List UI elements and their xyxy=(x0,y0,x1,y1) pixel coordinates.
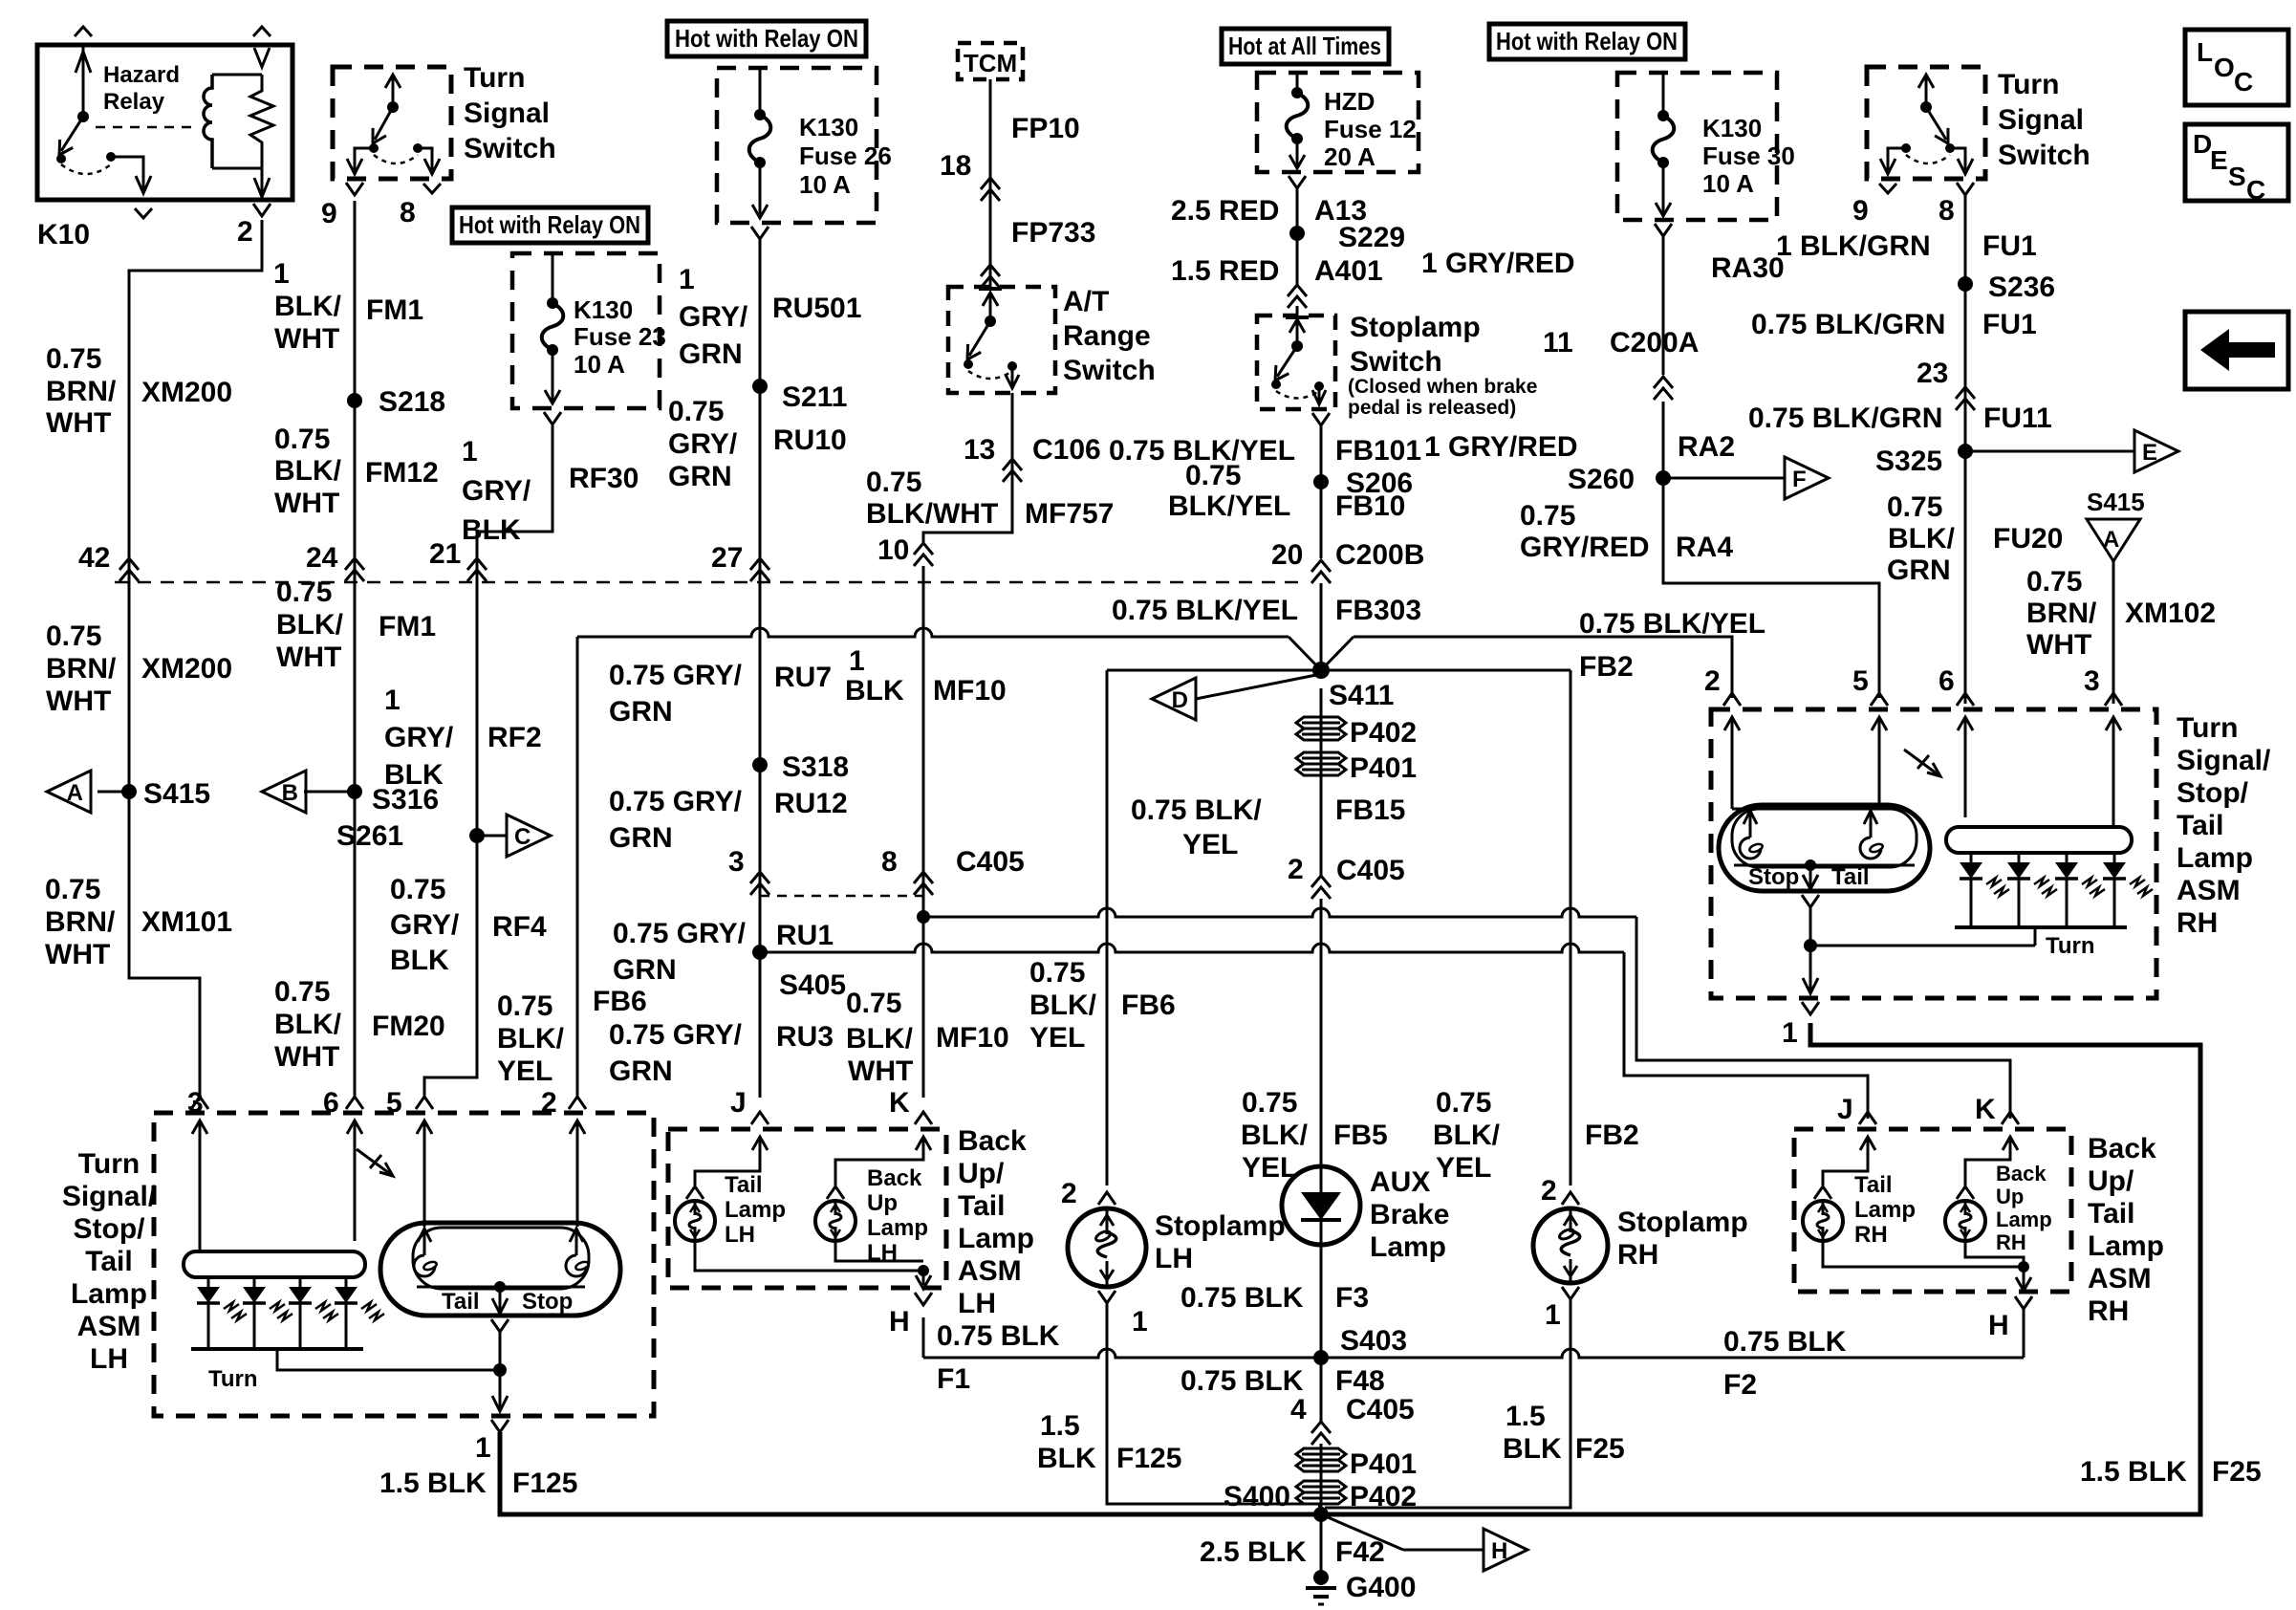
legend LOC box xyxy=(2185,30,2288,105)
lamp-out detector RH xyxy=(1904,750,1940,776)
wire to triangle A xyxy=(97,791,129,794)
svg-text:3: 3 xyxy=(728,846,745,878)
lamp AUX Brake diode xyxy=(1282,1166,1360,1245)
svg-text:F3: F3 xyxy=(1335,1282,1369,1314)
svg-text:0.75 BLK: 0.75 BLK xyxy=(1180,1282,1304,1314)
svg-text:Signal/: Signal/ xyxy=(2177,745,2271,776)
connector 23 chevrons xyxy=(1956,387,1975,410)
svg-text:H: H xyxy=(1491,1538,1507,1564)
svg-text:0.75: 0.75 xyxy=(46,343,101,375)
svg-text:Signal: Signal xyxy=(1998,104,2084,136)
splice S229 xyxy=(1289,226,1305,241)
connector triangle E xyxy=(2134,430,2178,472)
assembly Turn Signal/Stop/Tail Lamp ASM LH box xyxy=(154,1113,654,1416)
connector triangle F xyxy=(1785,457,1829,499)
lamp Tail Lamp LH xyxy=(675,1201,715,1241)
svg-text:23: 23 xyxy=(1917,358,1948,389)
svg-text:10 A: 10 A xyxy=(574,350,625,379)
wire backup lamp RH feed xyxy=(1965,1153,2010,1186)
svg-text:RA2: RA2 xyxy=(1678,431,1735,463)
svg-text:WHT: WHT xyxy=(46,407,111,439)
svg-text:10: 10 xyxy=(877,534,909,566)
svg-text:10 A: 10 A xyxy=(799,170,851,199)
TS-RH contact a xyxy=(1901,143,1911,153)
arrowhead down pin2 bottom xyxy=(254,178,270,197)
svg-text:Stop/: Stop/ xyxy=(2177,777,2249,809)
wire RH tail feed xyxy=(1878,765,1881,809)
arrowhead down pin2 top xyxy=(254,48,270,67)
TS-RH arm xyxy=(1926,107,1946,140)
svg-text:RU501: RU501 xyxy=(772,293,861,324)
fusebox HZD Fuse 12 xyxy=(1257,73,1419,172)
svg-text:FM1: FM1 xyxy=(366,294,423,326)
bulb inner filament bar RH xyxy=(1734,864,1915,867)
wire RH stop feed xyxy=(1731,765,1734,809)
connector 11 C200A chevrons xyxy=(1654,377,1673,400)
assembly Back Up/Tail Lamp ASM RH box xyxy=(1794,1129,2071,1292)
wire LH ASM exit xyxy=(492,1370,508,1411)
svg-text:8: 8 xyxy=(881,846,898,878)
svg-text:Lamp: Lamp xyxy=(1854,1197,1916,1223)
svg-text:ASM: ASM xyxy=(958,1255,1022,1287)
svg-text:BLK/: BLK/ xyxy=(497,1023,565,1055)
relay contact a xyxy=(56,154,66,163)
connector triangle B xyxy=(262,771,306,813)
svg-text:A: A xyxy=(2103,527,2119,553)
svg-text:P402: P402 xyxy=(1350,1481,1417,1512)
svg-text:20 A: 20 A xyxy=(1324,142,1375,171)
svg-text:FM20: FM20 xyxy=(372,1011,445,1042)
connector C405 RU chevrons xyxy=(750,872,769,895)
port fork LH ASM bottom xyxy=(491,1420,509,1432)
svg-text:18: 18 xyxy=(940,150,971,182)
connector triangle C xyxy=(507,815,551,857)
svg-text:Relay: Relay xyxy=(103,89,165,115)
svg-text:YEL: YEL xyxy=(1242,1152,1297,1184)
svg-text:0.75: 0.75 xyxy=(1029,957,1085,989)
svg-text:Turn: Turn xyxy=(208,1366,258,1392)
wire A13 xyxy=(1296,188,1299,285)
wire FB101/FB10 xyxy=(1320,425,1323,558)
port fork under fuse30 xyxy=(1655,224,1672,236)
svg-text:RU1: RU1 xyxy=(776,920,834,951)
svg-text:RH: RH xyxy=(2177,907,2218,939)
connector S415 triangle xyxy=(2087,519,2140,561)
svg-text:FB2: FB2 xyxy=(1585,1120,1639,1151)
svg-text:XM102: XM102 xyxy=(2125,598,2216,629)
svg-text:GRN: GRN xyxy=(609,822,673,854)
connector triangle A xyxy=(47,771,91,813)
svg-text:Tail: Tail xyxy=(442,1289,480,1315)
svg-text:Fuse 26: Fuse 26 xyxy=(799,141,892,170)
stoplamp-sw arm xyxy=(1277,346,1297,377)
svg-text:0.75 BLK: 0.75 BLK xyxy=(1180,1365,1304,1397)
svg-text:2: 2 xyxy=(1541,1175,1557,1207)
arrowhead up on K10 feed xyxy=(76,52,91,73)
LED 1 LH xyxy=(207,1277,210,1287)
splice S211 xyxy=(752,379,768,394)
stoplamp-sw throw arc xyxy=(1276,391,1319,399)
svg-text:Hot at All Times: Hot at All Times xyxy=(1228,32,1381,60)
wire FM1 xyxy=(354,201,357,1098)
RH backup internal arrows xyxy=(1867,1137,1870,1153)
wire F42 to ground xyxy=(1320,1514,1323,1572)
bulb common arrow LH xyxy=(492,1287,508,1314)
svg-text:MF757: MF757 xyxy=(1025,498,1114,530)
svg-text:1 BLK/GRN: 1 BLK/GRN xyxy=(1776,230,1931,262)
svg-text:Switch: Switch xyxy=(1063,355,1156,386)
TS-RH contact b lead xyxy=(1950,148,1965,170)
port fork tail lamp LH xyxy=(686,1186,704,1199)
svg-text:8: 8 xyxy=(400,197,416,228)
svg-text:Lamp: Lamp xyxy=(1996,1207,2052,1231)
terminal v port 8 xyxy=(423,184,441,193)
TS-RH contact a lead xyxy=(1888,148,1906,170)
splice S325 xyxy=(1958,444,1973,459)
wire fuse26 top xyxy=(759,68,762,115)
lamp Back Up Lamp LH xyxy=(815,1201,856,1241)
svg-text:BRN/: BRN/ xyxy=(45,906,116,938)
svg-text:0.75: 0.75 xyxy=(274,976,330,1008)
svg-text:1: 1 xyxy=(1782,1017,1798,1049)
svg-text:(Closed when brake: (Closed when brake xyxy=(1348,376,1537,398)
wire to triangle B xyxy=(304,791,355,794)
svg-text:GRY/: GRY/ xyxy=(390,909,460,941)
RH ASM internal arrows xyxy=(1731,717,1734,765)
port fork stoplamp RH top xyxy=(1562,1192,1579,1205)
fusebox K130 Fuse 30 xyxy=(1617,73,1777,220)
wire F125 from stoplamp LH xyxy=(1107,1303,1321,1512)
svg-text:0.75: 0.75 xyxy=(390,874,445,905)
svg-text:FB10: FB10 xyxy=(1335,490,1405,522)
svg-text:BLK: BLK xyxy=(462,514,521,546)
svg-text:42: 42 xyxy=(78,542,110,574)
wire FB2 drop to stoplamp RH xyxy=(1570,670,1572,1186)
svg-text:GRY/: GRY/ xyxy=(384,722,454,753)
svg-text:BLK/: BLK/ xyxy=(274,455,342,487)
svg-text:Tail: Tail xyxy=(958,1190,1005,1222)
svg-text:1 GRY/RED: 1 GRY/RED xyxy=(1421,248,1575,279)
AT feed arrow xyxy=(989,293,992,321)
relay contact b lead xyxy=(111,157,143,189)
svg-text:1.5: 1.5 xyxy=(1040,1410,1080,1442)
svg-text:Turn: Turn xyxy=(464,62,525,94)
svg-text:Lamp: Lamp xyxy=(71,1278,147,1310)
bulb Stop/Tail LH xyxy=(380,1223,620,1316)
AT arm xyxy=(969,321,990,356)
connector 10 chevrons xyxy=(914,543,933,566)
svg-text:1: 1 xyxy=(679,264,695,295)
svg-text:WHT: WHT xyxy=(274,1041,339,1073)
svg-text:BLK/: BLK/ xyxy=(1029,990,1097,1021)
splice S261 xyxy=(469,828,485,843)
svg-text:0.75: 0.75 xyxy=(846,988,901,1019)
svg-text:0.75 BLK/GRN: 0.75 BLK/GRN xyxy=(1751,309,1945,340)
svg-text:J: J xyxy=(1837,1094,1853,1125)
wire MF10 xyxy=(922,566,925,1098)
svg-text:C106: C106 xyxy=(1032,434,1101,466)
label box Hot with Relay ON 3 xyxy=(1489,24,1685,59)
wire fuse23 top xyxy=(552,253,554,303)
ground bus F1 F2 xyxy=(923,1349,2024,1358)
svg-text:BRN/: BRN/ xyxy=(46,653,117,685)
svg-text:F125: F125 xyxy=(1116,1443,1181,1474)
svg-text:0.75 BLK/YEL: 0.75 BLK/YEL xyxy=(1112,595,1298,626)
svg-text:F125: F125 xyxy=(512,1468,577,1499)
svg-text:K130: K130 xyxy=(1702,114,1762,142)
svg-text:6: 6 xyxy=(1939,665,1955,697)
svg-text:GRN: GRN xyxy=(609,696,673,728)
svg-text:Switch: Switch xyxy=(1998,140,2090,171)
svg-text:P401: P401 xyxy=(1350,1448,1417,1480)
port fork stoplamp LH bottom xyxy=(1098,1291,1116,1303)
LH ASM internal arrows xyxy=(199,1120,202,1171)
svg-text:GRN: GRN xyxy=(609,1055,673,1087)
svg-text:FB303: FB303 xyxy=(1335,595,1421,626)
bulb terminal LH right xyxy=(570,1229,583,1242)
wire RA2 xyxy=(1662,402,1665,478)
svg-text:Stop/: Stop/ xyxy=(74,1213,146,1245)
svg-text:Stop: Stop xyxy=(1748,864,1799,890)
svg-text:F: F xyxy=(1792,467,1807,492)
TS-LH contact b xyxy=(413,143,422,153)
svg-text:0.75: 0.75 xyxy=(668,396,724,427)
relay switch arm xyxy=(61,117,83,151)
label box Hot at All Times xyxy=(1222,29,1389,64)
svg-text:F25: F25 xyxy=(1575,1433,1625,1465)
port fork under fuse23 xyxy=(544,412,561,424)
svg-text:BLK/: BLK/ xyxy=(1241,1120,1309,1151)
LED 3 LH xyxy=(299,1277,302,1287)
TS-LH throw arc xyxy=(374,155,418,163)
svg-text:Fuse 23: Fuse 23 xyxy=(574,322,666,351)
svg-text:YEL: YEL xyxy=(1029,1022,1085,1054)
splice S236 xyxy=(1958,276,1973,292)
svg-text:TCM: TCM xyxy=(964,49,1017,77)
svg-text:0.75: 0.75 xyxy=(1185,460,1241,491)
port fork backup lamp LH xyxy=(827,1186,844,1199)
wire RH fu20 stub xyxy=(1964,765,1967,817)
svg-text:Tail: Tail xyxy=(1854,1172,1893,1198)
svg-text:K130: K130 xyxy=(799,113,858,141)
svg-text:HZD: HZD xyxy=(1324,87,1375,116)
splice S260 xyxy=(1656,470,1671,486)
svg-text:Lamp: Lamp xyxy=(867,1215,928,1241)
svg-text:0.75 BLK: 0.75 BLK xyxy=(1723,1326,1847,1358)
wire lamps to H port RH xyxy=(1823,1241,2024,1267)
terminal v port 9 RH xyxy=(1879,184,1896,193)
svg-text:RA4: RA4 xyxy=(1676,532,1733,563)
svg-text:FB6: FB6 xyxy=(1121,990,1176,1021)
svg-text:9: 9 xyxy=(1852,195,1869,227)
svg-text:BLK: BLK xyxy=(390,945,449,976)
switch Turn Signal RH box xyxy=(1867,67,1985,179)
port 2 fork xyxy=(253,204,271,216)
wire LH tail feed xyxy=(423,1171,426,1227)
svg-text:Stoplamp: Stoplamp xyxy=(1350,312,1481,343)
LED 2 RH xyxy=(2018,853,2021,862)
svg-text:Lamp: Lamp xyxy=(2088,1230,2164,1262)
LED 4 RH xyxy=(2113,853,2116,862)
AT contact a xyxy=(964,359,973,369)
svg-text:A: A xyxy=(67,780,83,806)
svg-text:S: S xyxy=(2228,162,2246,191)
svg-text:5: 5 xyxy=(1852,665,1869,697)
svg-text:S405: S405 xyxy=(779,969,846,1001)
relay contact b xyxy=(106,152,116,162)
svg-text:RH: RH xyxy=(2088,1295,2129,1327)
svg-text:1: 1 xyxy=(462,436,478,468)
svg-text:2.5 BLK: 2.5 BLK xyxy=(1200,1536,1307,1568)
svg-text:0.75: 0.75 xyxy=(276,577,332,608)
svg-text:FB101: FB101 xyxy=(1335,435,1421,467)
svg-text:A401: A401 xyxy=(1314,255,1383,287)
port forks RH ASM top xyxy=(1723,693,1741,706)
svg-text:F48: F48 xyxy=(1335,1365,1385,1397)
svg-text:YEL: YEL xyxy=(497,1055,552,1087)
terminal ^ K10 pin top-left xyxy=(75,27,92,36)
svg-text:GRN: GRN xyxy=(613,954,677,986)
svg-text:BLK/: BLK/ xyxy=(1888,523,1956,555)
stoplamp-sw pivot xyxy=(1291,340,1303,352)
wire backup lamp LH feed xyxy=(835,1153,923,1186)
LED bar LH xyxy=(184,1251,365,1277)
connector 21 chevrons xyxy=(467,558,487,581)
wire FP10 xyxy=(989,79,992,287)
svg-text:S415: S415 xyxy=(143,778,210,810)
connector 27 chevrons xyxy=(750,558,769,581)
svg-text:FP10: FP10 xyxy=(1011,113,1080,144)
svg-text:O: O xyxy=(2214,53,2235,82)
wire RA4 xyxy=(1663,478,1879,698)
svg-text:FB2: FB2 xyxy=(1579,651,1634,683)
svg-text:BLK/: BLK/ xyxy=(846,1023,914,1055)
svg-text:27: 27 xyxy=(711,542,743,574)
svg-text:H: H xyxy=(1988,1310,2009,1341)
module TCM box xyxy=(958,43,1023,79)
wire RF30/RF2 xyxy=(424,425,552,1098)
bulb terminal LH left xyxy=(418,1229,431,1242)
wire to triangle D xyxy=(1196,674,1321,699)
svg-text:Hot with Relay ON: Hot with Relay ON xyxy=(459,210,640,239)
splice S411 xyxy=(1312,662,1330,679)
svg-text:F1: F1 xyxy=(937,1363,970,1395)
TS-RH throw arc xyxy=(1906,155,1950,163)
svg-text:XM200: XM200 xyxy=(141,377,232,408)
junction turn/common LH xyxy=(493,1363,507,1377)
bulb inner filament bar LH xyxy=(417,1286,585,1289)
switch A/T Range box xyxy=(948,287,1055,393)
wire XM102 xyxy=(2112,561,2115,704)
coil top rail xyxy=(212,74,262,76)
svg-text:Turn: Turn xyxy=(2177,712,2238,744)
wire FU1 xyxy=(1964,195,1967,704)
svg-text:BLK: BLK xyxy=(845,675,904,707)
bulb bottom fork RH xyxy=(1802,895,1819,907)
svg-text:FM12: FM12 xyxy=(365,457,439,489)
bus F125/F25 bottom xyxy=(500,1023,2200,1514)
svg-text:8: 8 xyxy=(1939,195,1955,227)
wire RA30 xyxy=(1662,236,1665,375)
TS-LH contact a xyxy=(369,143,379,153)
connector 4 C405 chevrons xyxy=(1311,1422,1331,1445)
splice S316 xyxy=(347,784,362,799)
svg-text:GRN: GRN xyxy=(679,338,743,370)
svg-text:K: K xyxy=(889,1087,910,1119)
fuse element F26 xyxy=(754,109,766,120)
svg-text:1.5: 1.5 xyxy=(1505,1401,1546,1432)
svg-text:P402: P402 xyxy=(1350,717,1417,749)
connector P401 lower xyxy=(1296,1448,1346,1471)
bulb common dot RH xyxy=(1805,859,1816,871)
legend arrow box xyxy=(2185,312,2288,389)
wire F25 from stoplamp RH xyxy=(1325,1299,1570,1508)
svg-text:BLK/WHT: BLK/WHT xyxy=(866,498,998,530)
svg-text:21: 21 xyxy=(429,538,461,570)
svg-text:Up: Up xyxy=(867,1190,898,1216)
LED rail LH xyxy=(191,1347,363,1351)
svg-text:Stop: Stop xyxy=(522,1289,573,1315)
TS-LH pivot xyxy=(387,101,399,113)
svg-text:F42: F42 xyxy=(1335,1536,1385,1568)
svg-text:BLK: BLK xyxy=(1503,1433,1562,1465)
fusebox K130 Fuse 23 xyxy=(512,253,660,408)
dashed mechanical link xyxy=(96,126,191,129)
connector 18 chevrons xyxy=(981,178,1000,201)
svg-text:1: 1 xyxy=(849,645,865,677)
wire to triangle C xyxy=(477,835,507,838)
svg-text:0.75: 0.75 xyxy=(2026,566,2082,598)
svg-text:B: B xyxy=(282,780,298,806)
svg-text:BLK/: BLK/ xyxy=(274,1009,342,1040)
harness separator dashed line xyxy=(115,581,1302,584)
svg-text:S415: S415 xyxy=(2087,488,2145,516)
LED 3 RH xyxy=(2066,853,2069,862)
svg-text:BLK/YEL: BLK/YEL xyxy=(1168,490,1290,522)
svg-text:RU10: RU10 xyxy=(773,424,847,456)
svg-text:WHT: WHT xyxy=(274,488,339,519)
svg-text:P401: P401 xyxy=(1350,752,1417,784)
svg-text:Stoplamp: Stoplamp xyxy=(1155,1210,1286,1242)
wire to P401 lower xyxy=(1320,1444,1323,1514)
svg-text:RF2: RF2 xyxy=(487,722,542,753)
AT contact b xyxy=(1007,361,1017,371)
port fork RH ASM bottom xyxy=(1802,1002,1819,1014)
splice S218 xyxy=(347,393,362,408)
svg-text:Tail: Tail xyxy=(85,1246,132,1277)
port fork under stoplamp switch xyxy=(1312,413,1330,425)
svg-text:C405: C405 xyxy=(1336,855,1405,886)
svg-text:0.75 GRY/: 0.75 GRY/ xyxy=(613,918,747,949)
svg-text:0.75: 0.75 xyxy=(1520,500,1575,532)
connector C405 MF chevrons xyxy=(914,872,933,895)
AT contact b lead xyxy=(1006,366,1019,388)
connector triangle D xyxy=(1152,678,1196,720)
svg-text:FU1: FU1 xyxy=(1982,230,2037,262)
svg-text:E: E xyxy=(2210,145,2228,175)
port forks RH backup top xyxy=(1859,1112,1876,1124)
port forks LH backup top xyxy=(751,1112,769,1124)
coil bottom rail xyxy=(212,167,262,170)
svg-text:RH: RH xyxy=(1996,1230,2026,1254)
svg-text:Switch: Switch xyxy=(1350,346,1442,378)
TS-RH contact b xyxy=(1945,143,1955,153)
bulb terminal RH right xyxy=(1864,811,1877,824)
H exit arrow LH xyxy=(916,1271,931,1289)
splice S415 xyxy=(121,784,137,799)
connector P401 upper xyxy=(1296,752,1346,775)
port fork under hzd xyxy=(1289,176,1306,188)
